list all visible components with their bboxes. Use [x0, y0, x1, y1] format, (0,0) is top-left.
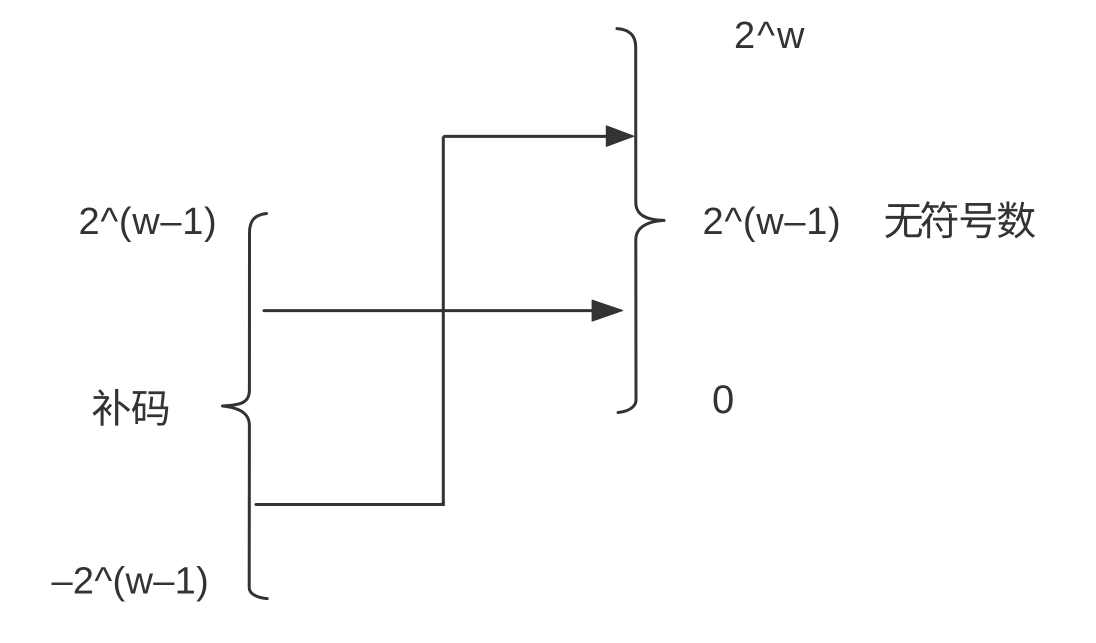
arrowhead of middle arrow [592, 300, 623, 321]
wire: vertical riser [442, 136, 445, 504]
svg-text:2^(w–1): 2^(w–1) [703, 201, 842, 243]
arrowhead of top arrow [606, 126, 634, 147]
svg-text:2^w: 2^w [734, 15, 806, 57]
svg-text:2^(w–1): 2^(w–1) [79, 201, 218, 243]
label wufuhaoshu (unsigned number) [885, 201, 1035, 238]
svg-text:0: 0 [712, 378, 734, 422]
right curly brace (unsigned range) [617, 29, 664, 413]
label buma (two's complement) [93, 389, 169, 426]
wire: top horizontal from vertical riser to right brace [443, 135, 607, 138]
svg-text:–2^(w–1): –2^(w–1) [52, 561, 210, 603]
wire: middle arrow shaft [264, 309, 593, 312]
left curly brace (compl. range) [223, 214, 268, 599]
wire: bottom horizontal from left brace to vertical riser [256, 502, 443, 505]
